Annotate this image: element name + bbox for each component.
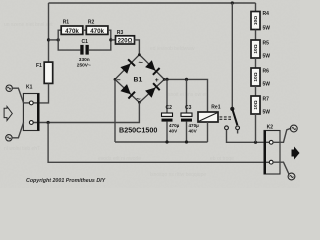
- svg-text:5W: 5W: [263, 110, 271, 116]
- resistor R3: [116, 30, 135, 44]
- resistor R6: [251, 68, 270, 88]
- svg-text:K2: K2: [267, 125, 274, 131]
- svg-text:10Ω: 10Ω: [253, 100, 259, 109]
- svg-text:Copyright 2001 Promitheus DIY: Copyright 2001 Promitheus DIY: [26, 178, 106, 184]
- svg-text:evods erlt ni nworle: evods erlt ni nworle: [98, 156, 141, 162]
- wire: R2 to node: [108, 30, 111, 40]
- svg-text:un szene niet bnsl eet: un szene niet bnsl eet: [4, 22, 53, 28]
- output arrow (solid): [292, 147, 300, 160]
- wire: branch link: [49, 39, 59, 41]
- wire: bridge minus down (crosses AC rail): [114, 79, 116, 142]
- node: R1 left branch (dots): [47, 38, 50, 41]
- junction dot K1 neutral: [47, 121, 50, 124]
- wire: fuse vertical upper: [48, 3, 50, 62]
- svg-text:nl wolni tieb ehT: nl wolni tieb ehT: [4, 146, 40, 152]
- svg-text:eb ot troqe: eb ot troqe: [210, 156, 234, 162]
- svg-text:220Ω: 220Ω: [118, 39, 133, 45]
- svg-text:lsnoitqo ns rltiw beqqiupe: lsnoitqo ns rltiw beqqiupe: [150, 172, 206, 178]
- relay Re1 coil: [198, 105, 221, 123]
- svg-text:470k: 470k: [65, 28, 79, 35]
- wire: down to C1 row: [58, 40, 80, 50]
- wire R4-R5: [255, 30, 257, 41]
- svg-text:10Ω: 10Ω: [253, 16, 259, 25]
- wire R6-R7: [255, 86, 257, 96]
- svg-text:40V: 40V: [169, 129, 178, 134]
- faint bleed-through texture: [4, 22, 234, 178]
- wire R1-R2: [83, 29, 87, 31]
- svg-text:470µ: 470µ: [169, 123, 180, 128]
- junction dot top rail / switch line: [231, 1, 234, 4]
- AC source bottom-left: [6, 123, 24, 142]
- wire: bridge bottom to AC rail: [33, 102, 139, 122]
- pin 2: [29, 121, 33, 125]
- svg-text:~: ~: [136, 95, 141, 104]
- svg-text:R2: R2: [88, 20, 95, 26]
- svg-text:5W: 5W: [263, 54, 271, 60]
- connector K2: [264, 125, 280, 174]
- svg-text:470µ: 470µ: [189, 123, 200, 128]
- wire: R7 down to K2 line: [255, 114, 257, 142]
- svg-text:R5: R5: [263, 40, 270, 46]
- wire: rail corner down to R4: [255, 3, 257, 12]
- AC load bottom-right: [273, 162, 295, 180]
- svg-text:B250C1500: B250C1500: [119, 126, 157, 135]
- svg-text:snoit ei bns ow erl: snoit ei bns ow erl: [168, 92, 208, 98]
- diode D bottom-left: [120, 84, 130, 94]
- svg-text:R6: R6: [263, 68, 270, 74]
- fuse F1: [36, 62, 53, 84]
- wire: up to R1 row: [58, 30, 61, 40]
- svg-text:C3: C3: [185, 105, 192, 111]
- capacitor C3: [181, 79, 199, 142]
- pin 1: [24, 102, 37, 104]
- diode D top-left: [120, 64, 130, 74]
- svg-text:R1: R1: [63, 20, 70, 26]
- wire: node to R3: [111, 39, 116, 41]
- svg-text:Re1: Re1: [211, 105, 220, 111]
- wire: neutral drop to bottom line: [48, 123, 269, 163]
- svg-text:5W: 5W: [263, 26, 271, 32]
- relay switch contact: [225, 3, 240, 130]
- diode D bottom-right: [145, 88, 155, 98]
- svg-text:R7: R7: [263, 96, 270, 102]
- svg-text:K1: K1: [26, 85, 33, 91]
- top rail: [49, 2, 256, 4]
- svg-text:F1: F1: [36, 63, 42, 69]
- wire: R3 to bridge top: [135, 40, 140, 55]
- junction dot R7/K2: [254, 141, 257, 144]
- svg-text:R3: R3: [117, 30, 124, 36]
- bridge rectifier B1: [114, 53, 166, 134]
- resistor R7: [251, 96, 270, 116]
- svg-text:C2: C2: [166, 105, 173, 111]
- svg-text:C1: C1: [82, 39, 89, 45]
- svg-text:470k: 470k: [90, 28, 104, 35]
- mechanical link dashes: [220, 117, 232, 119]
- diode D top-right: [145, 60, 155, 70]
- capacitor C1: [77, 39, 91, 68]
- wire: contact to K2 line: [227, 130, 270, 143]
- svg-text:ed ievinob beldwww: ed ievinob beldwww: [150, 46, 195, 52]
- wire R5-R6: [255, 58, 257, 68]
- svg-text:250V~: 250V~: [77, 62, 91, 68]
- wire: fuse bottom to K1 pin1: [37, 84, 49, 103]
- capacitor C2: [162, 79, 180, 142]
- resistor R2: [86, 20, 108, 35]
- DC minus rail: [115, 141, 208, 143]
- svg-text:10Ω: 10Ω: [253, 44, 259, 53]
- svg-text:−: −: [117, 77, 121, 84]
- svg-text:40V: 40V: [189, 129, 198, 134]
- AC load top-right: [273, 125, 297, 142]
- svg-text:330n: 330n: [79, 57, 90, 63]
- svg-text:10Ω: 10Ω: [253, 72, 259, 81]
- AC source top-left: [6, 85, 24, 103]
- svg-text:B1: B1: [134, 77, 143, 84]
- resistor R1: [61, 20, 83, 35]
- wire: C1 right to node: [89, 40, 111, 50]
- resistor R5: [251, 40, 270, 60]
- paper background: [0, 0, 300, 188]
- plus rail: [164, 79, 207, 112]
- resistor R4: [251, 11, 270, 32]
- connector K1: [23, 85, 39, 131]
- svg-text:+: +: [155, 77, 159, 84]
- svg-text:~: ~: [139, 58, 144, 67]
- wire: relay coil to minus rail: [207, 122, 209, 142]
- wire: unused contact stub: [237, 130, 239, 134]
- node dot right: [109, 38, 112, 41]
- svg-text:5W: 5W: [263, 82, 271, 88]
- input arrow (outline): [4, 107, 12, 121]
- svg-text:R4: R4: [263, 11, 270, 17]
